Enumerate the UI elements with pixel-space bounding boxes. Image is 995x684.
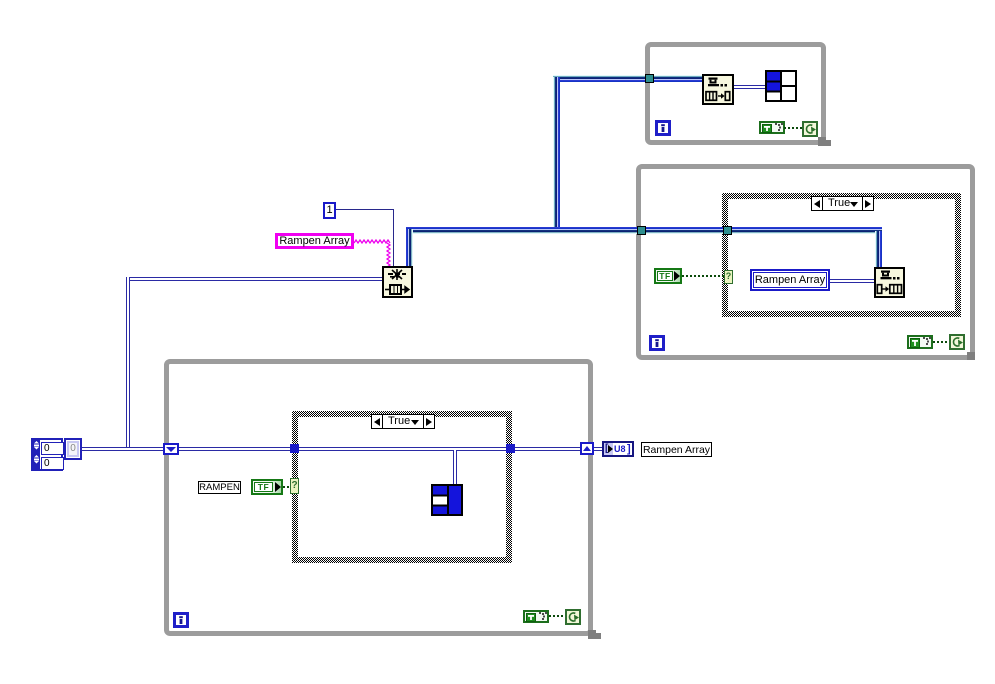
- TF local variable (loop 3): [251, 479, 283, 495]
- loop condition terminal loop 2: [949, 334, 965, 350]
- wire: magenta cluster zigzag wire: [354, 239, 394, 269]
- case structure 3 frame: [292, 411, 512, 563]
- wire: array double wire to U8 indicator: [594, 447, 602, 451]
- wire: dotted boolean wire loop 3: [549, 615, 565, 617]
- node: enqueue element function (case 2): [874, 267, 905, 298]
- wire: scalar wire from constant 1: [336, 209, 394, 210]
- wire: dotted boolean wire loop 1: [784, 127, 802, 129]
- wire: double wire dequeue to cluster display: [734, 85, 765, 89]
- TF constant loop 3: [523, 610, 549, 623]
- wire: thick queue wire vertical into enqueue node: [875, 231, 882, 267]
- wire: array double wire case3 to right shift register: [515, 447, 580, 451]
- right shift register (up arrow): [580, 442, 594, 455]
- cluster display icon (loop 1): [765, 70, 797, 102]
- wire: thick queue wire vertical branch: [553, 77, 560, 233]
- array constant element shell: [64, 438, 82, 460]
- case structure 2 frame: [722, 193, 961, 317]
- wire: array double wire bottom run segment 2: [179, 447, 290, 451]
- case 2 selector ? tunnel: [724, 270, 733, 284]
- tunnel: teal tunnel on loop 1 border: [645, 74, 654, 83]
- wire: dotted boolean wire loop 2: [933, 341, 949, 343]
- numeric constant 1: [323, 202, 336, 219]
- tunnel: teal tunnel on loop 2 border: [637, 226, 646, 235]
- while loop 2 frame (middle right): [636, 164, 975, 360]
- tunnel: blue tunnel case 3 left: [290, 444, 299, 453]
- wire: array double wire vertical left: [126, 277, 130, 451]
- iteration terminal loop 1: [655, 120, 671, 136]
- node: dequeue element function (loop 1): [702, 74, 734, 105]
- TF constant loop 2: [907, 335, 933, 349]
- wire: dotted boolean to case 2 selector tunnel: [682, 275, 724, 277]
- Rampen Array local variable (case 2): [750, 269, 830, 291]
- Rampen Array indicator label: [641, 442, 712, 457]
- Rampen Array control (magenta): [275, 233, 354, 249]
- loop condition terminal loop 3: [565, 609, 581, 625]
- tunnel: blue tunnel case 3 right: [506, 444, 515, 453]
- array constant cluster (far left): [31, 438, 63, 471]
- wire: thick queue wire vertical from obtain node: [406, 229, 413, 266]
- wire: array double wire bottom run segment 1: [82, 447, 163, 451]
- iteration terminal loop 2: [649, 335, 665, 351]
- TF constant loop 1: [759, 121, 785, 134]
- while loop 1 corner notch: [818, 137, 826, 146]
- wire: dotted boolean to case 3 selector tunnel: [283, 486, 291, 488]
- while loop 3 corner notch: [588, 630, 596, 639]
- while loop 1 frame (top right): [645, 42, 826, 145]
- case 3 selector ? tunnel: [290, 478, 299, 494]
- RAMPEN label: [198, 481, 241, 494]
- node: obtain queue function: [382, 266, 413, 298]
- tunnel: teal tunnel on case 2 border: [723, 226, 732, 235]
- while loop 2 corner notch: [967, 352, 975, 360]
- left shift register (down arrow): [163, 443, 179, 455]
- while loop 3 frame (bottom): [164, 359, 593, 636]
- TF local variable (loop 2): [654, 268, 682, 284]
- wire: thick queue wire horizontal main: [406, 227, 882, 234]
- wire: thick queue wire horizontal top (to loop 1): [553, 75, 703, 82]
- U8 array indicator terminal: [602, 441, 634, 457]
- loop condition terminal loop 1: [802, 121, 818, 137]
- wire: array double wire top horizontal into obtain node: [126, 277, 382, 281]
- iteration terminal loop 3: [173, 612, 189, 628]
- cluster constant icon (case 3): [431, 484, 463, 516]
- case 2 selector label: [811, 196, 874, 211]
- case 3 selector label: [371, 414, 435, 429]
- wire: branch down to cluster icon in case 3: [453, 450, 457, 484]
- wire: double wire local var to enqueue node: [830, 279, 874, 283]
- wire: array double wire inside case 3: [299, 447, 506, 451]
